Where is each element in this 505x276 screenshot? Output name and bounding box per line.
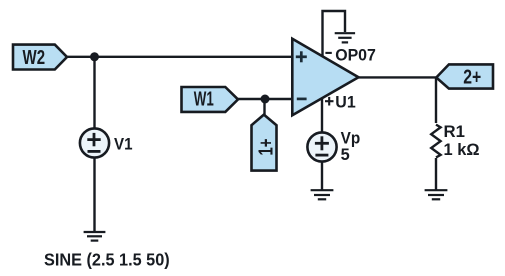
svg-text:W2: W2 [23,47,46,69]
svg-text:U1: U1 [335,93,355,112]
svg-text:V1: V1 [114,134,133,153]
svg-text:1 kΩ: 1 kΩ [444,140,480,159]
svg-text:OP07: OP07 [335,45,376,64]
svg-text:SINE (2.5 1.5 50): SINE (2.5 1.5 50) [44,250,170,270]
svg-text:1+: 1+ [255,139,277,156]
svg-text:2+: 2+ [463,67,481,89]
svg-text:W1: W1 [194,89,214,111]
svg-text:R1: R1 [444,122,465,141]
svg-text:5: 5 [341,145,350,164]
